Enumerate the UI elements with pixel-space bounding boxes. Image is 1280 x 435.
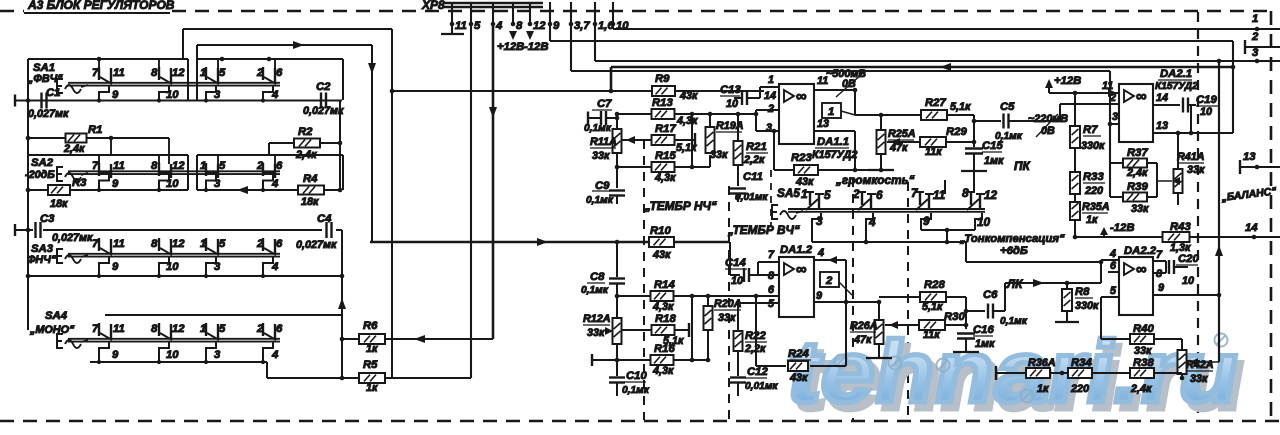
svg-text:7: 7 [92, 67, 99, 79]
svg-text:3: 3 [1252, 47, 1259, 59]
svg-text:DA1.1: DA1.1 [817, 136, 849, 148]
switch SA2 box outline [28, 154, 188, 156]
wire left rail x28 [27, 101, 29, 331]
svg-text:8: 8 [151, 67, 158, 79]
svg-text:14: 14 [1245, 222, 1258, 234]
svg-text:3: 3 [766, 122, 772, 134]
svg-text:R28: R28 [924, 279, 945, 291]
switch contact pair [98, 67, 100, 80]
svg-text:33к: 33к [1187, 164, 1205, 176]
op-amp DA1.2 [779, 257, 814, 317]
resistor R3 in bottom rail [48, 185, 70, 195]
svg-text:∞: ∞ [796, 261, 807, 278]
svg-text:6: 6 [276, 160, 283, 172]
switch SA5 actuator [772, 205, 778, 219]
DA2.2 pin 8 [1153, 272, 1166, 274]
svg-text:С1: С1 [46, 87, 60, 99]
svg-text:0,1мк: 0,1мк [622, 385, 650, 396]
switch lower contact [206, 342, 216, 362]
svg-text:R15: R15 [655, 150, 676, 162]
switch SA4 box outline [105, 314, 343, 316]
switch SA2 actuator [57, 167, 63, 181]
resistor R7 [1074, 93, 1076, 126]
capacitor C14 [729, 242, 731, 275]
svg-text:0,01мк: 0,01мк [745, 381, 778, 392]
switch contact pair [158, 323, 160, 336]
svg-text:8: 8 [151, 238, 158, 250]
svg-text:4: 4 [271, 261, 279, 273]
connector XP8 bus lines [443, 2, 543, 4]
svg-text:2: 2 [825, 275, 833, 287]
svg-text:7: 7 [768, 249, 775, 261]
svg-text:10: 10 [616, 20, 629, 32]
svg-text:10: 10 [977, 215, 991, 229]
svg-text:∞: ∞ [796, 88, 807, 105]
svg-text:С14: С14 [725, 257, 746, 269]
SA5 moving bar [788, 208, 985, 210]
svg-text:R16: R16 [654, 343, 675, 355]
svg-text:4: 4 [1109, 248, 1116, 260]
XP8 pin 10 [612, 2, 614, 24]
switch lower contact [206, 86, 216, 101]
switch lower contact [99, 342, 109, 362]
switch moving bar [68, 82, 280, 84]
svg-text:1к: 1к [1037, 383, 1049, 395]
svg-text:„МОНО“: „МОНО“ [29, 324, 75, 336]
svg-text:4,3к: 4,3к [652, 301, 674, 313]
resistor R10 [649, 237, 674, 247]
svg-text:3: 3 [1112, 111, 1118, 123]
svg-text:-20дБ: -20дБ [25, 169, 55, 181]
svg-text:R30: R30 [944, 311, 965, 323]
switch contact pair [98, 238, 100, 251]
svg-text:R21: R21 [746, 141, 767, 153]
svg-text:R26А: R26А [850, 320, 878, 332]
DA1.2 pin 5 input [738, 302, 779, 304]
svg-text:R27: R27 [925, 97, 946, 109]
svg-text:6: 6 [276, 323, 283, 335]
svg-text:18к: 18к [50, 198, 68, 210]
switch lower contact [206, 257, 216, 276]
svg-text:К157УД2: К157УД2 [812, 149, 857, 161]
capacitor C2 [320, 93, 322, 109]
svg-text:0,027мк: 0,027мк [303, 105, 344, 117]
svg-text:5: 5 [219, 160, 226, 172]
svg-text:1: 1 [200, 67, 206, 79]
wire C19 down to pin 13 line [1190, 105, 1192, 133]
switch lower contact [159, 175, 169, 191]
SA5 contact pair [970, 192, 972, 205]
SA5 lower contact 4 [866, 213, 873, 242]
svg-text:-12В: -12В [524, 41, 549, 53]
svg-text:9: 9 [112, 349, 119, 361]
svg-text:2,4к: 2,4к [1130, 383, 1152, 395]
svg-text:2: 2 [767, 103, 774, 115]
SA5 contact pair [861, 192, 863, 205]
svg-text:R33: R33 [1083, 171, 1104, 183]
watermark tehnari.ru [781, 323, 1254, 428]
svg-text:11к: 11к [923, 329, 940, 341]
wire DA1.2 output node [845, 260, 847, 366]
svg-text:3: 3 [214, 261, 221, 273]
svg-text:10: 10 [166, 261, 179, 273]
switch SA3 top edge / C3-C4 wire [43, 229, 322, 231]
DA1.2 pin 7 loop [757, 262, 759, 275]
svg-text:3,7: 3,7 [574, 20, 590, 32]
svg-text:3: 3 [214, 89, 221, 101]
svg-text:11: 11 [455, 20, 467, 32]
svg-text:С6: С6 [983, 289, 998, 301]
resistor R42A pot [1181, 339, 1183, 351]
wire DA1.1 output node [854, 90, 856, 115]
resistor R8 [1066, 283, 1068, 289]
switch contact pair [262, 163, 264, 176]
capacitor C6 [966, 310, 985, 312]
svg-text:R10: R10 [650, 225, 671, 237]
resistor R22 [737, 303, 739, 331]
svg-text:33к: 33к [587, 327, 605, 339]
svg-text:С5: С5 [1000, 101, 1015, 113]
section dashed line x908 [907, 182, 909, 420]
svg-text:2: 2 [256, 67, 264, 79]
svg-text:0,1мк: 0,1мк [995, 131, 1023, 142]
wire pin 4 vertical (thick) [492, 24, 495, 339]
svg-text:33к: 33к [718, 312, 736, 324]
svg-text:33к: 33к [1134, 345, 1152, 357]
svg-text:6: 6 [276, 238, 283, 250]
capacitor C5 [974, 120, 1001, 122]
resistor R18 with wiper [621, 329, 652, 331]
output pin 2 contact [1244, 40, 1246, 54]
svg-text:8: 8 [151, 160, 158, 172]
resistor R40 [1100, 297, 1102, 339]
svg-text:11к: 11к [925, 146, 942, 158]
svg-text:R13: R13 [652, 97, 673, 109]
wire +12V rail to pin 11 [1049, 92, 1120, 94]
resistor R9 [652, 86, 675, 96]
svg-text:6: 6 [1110, 260, 1117, 272]
svg-text:2,4к: 2,4к [1126, 167, 1148, 179]
svg-text:R25А: R25А [888, 128, 916, 140]
svg-text:10: 10 [731, 275, 743, 287]
resistor R30 with wiper [885, 324, 921, 326]
svg-text:1мк: 1мк [984, 155, 1004, 167]
switch contact pair [262, 67, 264, 80]
wire SA3 bottom rail [28, 275, 342, 277]
wire to DA2.1 pin 2 [1059, 104, 1061, 121]
wire bus B1 pin10 to output pin 1 [612, 24, 614, 29]
power +12V stub [509, 31, 517, 40]
resistor R16 [592, 359, 651, 361]
resistor R20A pot [707, 296, 709, 306]
svg-text:4: 4 [271, 178, 279, 190]
capacitor C3 [14, 224, 16, 236]
svg-text:9: 9 [553, 20, 560, 32]
svg-text:33к: 33к [1131, 203, 1149, 215]
switch contact pair [205, 323, 207, 336]
svg-text:10: 10 [166, 349, 179, 361]
wire R2/R4 right vertical [339, 143, 341, 190]
svg-text:1: 1 [801, 187, 808, 201]
wire DA1.1 input [738, 113, 756, 115]
XP8 pin 4 [492, 2, 494, 24]
svg-text:5: 5 [219, 238, 226, 250]
balance wiper arrow [1190, 361, 1219, 363]
svg-text:7: 7 [92, 238, 99, 250]
switch contact pair [262, 238, 264, 251]
svg-text:R12А: R12А [583, 313, 611, 325]
wire bus B3 pin1,6 to output pin 3 [594, 24, 596, 61]
resistor R2 [269, 142, 294, 144]
svg-text:1: 1 [200, 238, 206, 250]
svg-text:R9: R9 [655, 73, 670, 85]
power -12V rail [1075, 236, 1163, 238]
svg-text:4: 4 [271, 89, 279, 101]
svg-text:0,027мк: 0,027мк [28, 108, 69, 120]
svg-text:5: 5 [768, 298, 775, 310]
svg-text:5: 5 [1110, 285, 1117, 297]
wire x392 long vertical [391, 29, 393, 378]
svg-text:R23: R23 [791, 152, 812, 164]
long vertical x372 with arrow [371, 45, 373, 242]
svg-text:R22: R22 [745, 330, 766, 342]
svg-text:R40: R40 [1133, 323, 1154, 335]
svg-text:ЛК: ЛК [1006, 277, 1023, 291]
switch lower contact [263, 342, 273, 362]
svg-text:SA5: SA5 [777, 186, 800, 200]
svg-text:R38: R38 [1133, 357, 1154, 369]
resistor R27 [881, 114, 923, 116]
resistor R23 [772, 129, 777, 134]
svg-text:R43: R43 [1170, 221, 1191, 233]
DA2.2 pin 7 [1153, 260, 1166, 262]
wire SA2 bottom rail [28, 189, 188, 191]
resistor R19A (pot) [709, 114, 711, 126]
svg-text:10: 10 [1200, 106, 1212, 118]
svg-text:0,1мк: 0,1мк [1000, 316, 1028, 327]
svg-text:10: 10 [166, 178, 179, 190]
svg-text:2,4к: 2,4к [63, 143, 85, 155]
svg-text:14: 14 [764, 90, 776, 102]
svg-text:11: 11 [113, 67, 125, 79]
svg-text:0,01мк: 0,01мк [735, 192, 768, 203]
svg-text:5: 5 [219, 323, 226, 335]
svg-text:330к: 330к [1075, 300, 1099, 312]
svg-text:~220мВ: ~220мВ [1028, 113, 1068, 125]
svg-text:4,3к: 4,3к [676, 115, 698, 127]
wire SA5 to C15 [973, 172, 975, 192]
svg-text:7: 7 [92, 160, 99, 172]
svg-text:2: 2 [256, 238, 264, 250]
numbered box 1 [822, 103, 841, 118]
svg-text:3: 3 [214, 178, 221, 190]
svg-text:R7: R7 [1083, 124, 1098, 136]
svg-text:R8: R8 [1075, 286, 1090, 298]
resistor R34 [1068, 368, 1092, 378]
wire SA1 bottom rail [15, 100, 342, 102]
XP8 pin 5 [470, 2, 472, 24]
svg-text:-12В: -12В [1110, 222, 1135, 234]
SA5 lower contact 3 [812, 213, 821, 242]
svg-text:1: 1 [828, 106, 834, 118]
op-amp DA1.1 [779, 84, 814, 144]
svg-text:С2: С2 [316, 81, 331, 93]
svg-text:11: 11 [113, 323, 125, 335]
svg-text:1к: 1к [366, 343, 378, 355]
resistor R38 [1130, 368, 1154, 378]
svg-text:5,1к: 5,1к [950, 101, 971, 113]
svg-text:R2: R2 [298, 126, 313, 138]
svg-text:1: 1 [200, 323, 206, 335]
svg-text:С7: С7 [597, 98, 612, 110]
svg-text:6: 6 [876, 188, 883, 202]
svg-text:33к: 33к [1190, 373, 1208, 385]
capacitor C15 [965, 147, 983, 149]
svg-text:С4: С4 [317, 213, 332, 225]
XP8 pin 11 [451, 2, 453, 24]
XP8 pin 3,7 [570, 2, 572, 24]
svg-text:8: 8 [768, 270, 774, 282]
svg-text:12: 12 [172, 323, 185, 335]
svg-text:11: 11 [113, 160, 125, 172]
resistor R37 [1110, 162, 1124, 164]
wire bus B5 pin3,7 to DA2.1 pin3 ladder [570, 24, 572, 71]
svg-text:„громкость“: „громкость“ [835, 173, 915, 187]
svg-text:R29: R29 [946, 126, 967, 138]
switch contact pair [205, 238, 207, 251]
svg-text:13: 13 [1243, 151, 1256, 163]
svg-text:4,3к: 4,3к [652, 365, 674, 377]
svg-text:7: 7 [92, 323, 99, 335]
switch lower contact [206, 175, 216, 191]
wire R9 bus [392, 90, 653, 92]
svg-text:+6дБ: +6дБ [1000, 245, 1028, 257]
DA1.1 pin 11 output [814, 89, 855, 91]
svg-text:1мк: 1мк [975, 338, 995, 350]
wire bus B4 feedback (thick) [611, 66, 1233, 69]
switch contact pair [158, 67, 160, 80]
svg-text:SA4: SA4 [45, 310, 68, 322]
svg-text:R24: R24 [788, 348, 809, 360]
svg-text:12: 12 [533, 20, 546, 32]
resistor R36A [1026, 368, 1050, 378]
DA1.2 pin 9 output [814, 301, 846, 303]
switch contact pair [98, 163, 100, 176]
DA2.1 pin 11 input [1108, 89, 1117, 97]
switch lower contact [159, 86, 169, 101]
svg-text:3: 3 [816, 214, 823, 228]
switch lower contact [263, 257, 273, 276]
resistor R14 [615, 294, 620, 299]
block boundary dashed line x1198 [1197, 12, 1199, 421]
DA2.2 pin 9 output [1153, 294, 1219, 296]
resistor R41A balance pot [1177, 133, 1179, 169]
DA1.1 pin 1 [760, 86, 779, 88]
resistor R6 [342, 338, 360, 340]
op-amp DA2.2 [1119, 257, 1153, 315]
svg-text:6: 6 [768, 284, 775, 296]
svg-text:+12В: +12В [497, 41, 524, 53]
resistor R11A (pot) [616, 118, 618, 130]
svg-text:0,1мк: 0,1мк [584, 123, 612, 134]
capacitor C7 [587, 112, 589, 125]
svg-text:К157УД2: К157УД2 [1155, 81, 1198, 92]
resistor R39 [1110, 196, 1124, 198]
switch contact pair [262, 323, 264, 336]
svg-text:R34: R34 [1071, 357, 1092, 369]
svg-text:С10: С10 [626, 370, 647, 382]
svg-text:2,2к: 2,2к [744, 343, 766, 355]
svg-text:R42А: R42А [1186, 359, 1214, 371]
wire SA5 contact stub [944, 180, 946, 194]
svg-text:С16: С16 [973, 324, 994, 336]
svg-text:12: 12 [172, 67, 185, 79]
capacitor C16 [957, 332, 975, 334]
wire SA5 bottom [812, 241, 966, 243]
svg-text:С9: С9 [595, 180, 610, 192]
svg-text:А3 БЛОК РЕГУЛЯТОРОВ: А3 БЛОК РЕГУЛЯТОРОВ [27, 0, 175, 12]
op-amp DA2.1 [1119, 84, 1153, 142]
svg-text:43к: 43к [652, 249, 671, 261]
svg-text:С11: С11 [743, 171, 763, 183]
svg-text:4: 4 [271, 349, 279, 361]
wire SA1 inner loop with arrow [197, 44, 372, 46]
svg-text:„Тонкомпенсация“: „Тонкомпенсация“ [959, 233, 1065, 245]
switch SA1 box outline [28, 58, 188, 60]
wire SA5 to loudness network [965, 242, 967, 262]
switch lower contact [159, 257, 169, 276]
svg-text:2,2к: 2,2к [743, 154, 765, 166]
svg-text:2: 2 [1251, 31, 1259, 43]
capacitor C13 [748, 97, 760, 99]
svg-text:R17: R17 [655, 123, 676, 135]
SA5 contact pair [919, 192, 921, 205]
svg-text:5: 5 [219, 67, 226, 79]
svg-text:2: 2 [1109, 92, 1116, 104]
switch moving bar [68, 338, 280, 340]
svg-text:8: 8 [1156, 268, 1162, 280]
svg-text:R6: R6 [363, 320, 378, 332]
capacitor C20 [1165, 261, 1167, 273]
resistor R25A volume pot [880, 115, 882, 132]
svg-text:2: 2 [852, 187, 860, 201]
svg-text:220: 220 [1070, 383, 1089, 395]
capacitor C4 [325, 222, 327, 238]
svg-text:„ТЕМБР ВЧ“: „ТЕМБР ВЧ“ [727, 223, 800, 237]
svg-text:33к: 33к [710, 149, 728, 161]
svg-text:12: 12 [172, 160, 185, 172]
svg-text:1к: 1к [366, 382, 378, 394]
svg-text:DA2.2: DA2.2 [1124, 245, 1157, 257]
svg-text:2: 2 [256, 160, 264, 172]
svg-text:14: 14 [1156, 92, 1168, 104]
resistor R24 [755, 296, 757, 366]
svg-text:11: 11 [933, 188, 945, 202]
svg-text:9: 9 [923, 214, 930, 228]
svg-text:R41А: R41А [1177, 151, 1205, 163]
wire SA4 bottom rail [90, 361, 267, 363]
svg-text:R5: R5 [363, 359, 378, 371]
svg-text:DA1.2: DA1.2 [780, 244, 813, 256]
svg-text:9: 9 [816, 290, 822, 302]
svg-text:18к: 18к [301, 196, 319, 208]
svg-text:330к: 330к [1081, 140, 1105, 152]
DA2.2 pin 6 input [1108, 271, 1119, 273]
switch SA3 actuator [57, 249, 63, 263]
svg-text:2: 2 [256, 323, 264, 335]
svg-text:∞: ∞ [1136, 88, 1147, 105]
svg-text:6: 6 [276, 67, 283, 79]
